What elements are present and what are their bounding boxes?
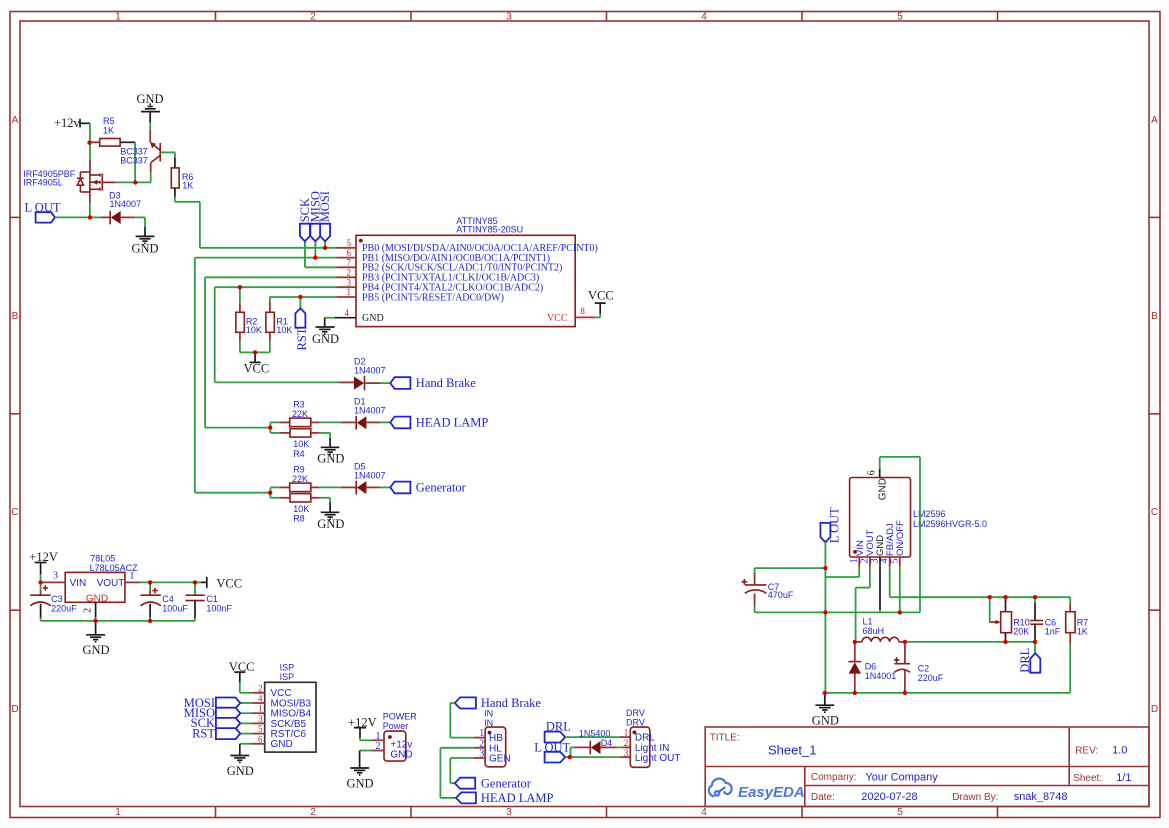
svg-text:1N4007: 1N4007 (110, 199, 142, 209)
svg-text:RST: RST (192, 726, 215, 740)
svg-text:GND: GND (347, 777, 374, 791)
svg-text:220uF: 220uF (918, 673, 944, 683)
svg-text:1K: 1K (1077, 627, 1088, 637)
svg-text:470uF: 470uF (768, 590, 794, 600)
svg-text:R3: R3 (293, 399, 305, 409)
svg-text:ON/OFF: ON/OFF (895, 520, 906, 556)
svg-text:LM2596: LM2596 (913, 509, 946, 519)
svg-text:10K: 10K (293, 504, 309, 514)
svg-text:5: 5 (258, 724, 263, 734)
svg-text:2: 2 (83, 608, 94, 613)
svg-text:1: 1 (258, 704, 263, 714)
svg-text:6: 6 (867, 470, 878, 475)
svg-text:1nF: 1nF (1045, 627, 1061, 637)
svg-text:A: A (12, 115, 19, 126)
svg-text:3: 3 (258, 714, 263, 724)
svg-text:B: B (12, 311, 19, 322)
svg-text:100nF: 100nF (206, 603, 232, 613)
svg-text:VCC: VCC (547, 313, 568, 324)
svg-text:EasyEDA: EasyEDA (738, 784, 805, 801)
svg-text:3: 3 (506, 12, 512, 23)
svg-text:DRV: DRV (626, 708, 645, 718)
svg-text:10K: 10K (276, 325, 292, 335)
svg-text:100uF: 100uF (162, 603, 188, 613)
svg-text:ISP: ISP (280, 672, 295, 682)
svg-text:1N4007: 1N4007 (354, 471, 386, 481)
svg-text:VIN: VIN (70, 578, 87, 589)
svg-text:A: A (1151, 115, 1158, 126)
svg-text:VOUT: VOUT (97, 578, 125, 589)
svg-text:GND: GND (83, 643, 110, 657)
svg-text:Drawn By:: Drawn By: (952, 792, 998, 803)
svg-text:C: C (1151, 507, 1158, 518)
svg-text:VCC: VCC (244, 362, 270, 376)
svg-text:snak_8748: snak_8748 (1014, 791, 1068, 803)
svg-text:D: D (11, 704, 18, 715)
svg-text:HEAD LAMP: HEAD LAMP (416, 416, 489, 430)
svg-text:220uF: 220uF (51, 603, 77, 613)
svg-text:1K: 1K (103, 126, 114, 136)
svg-text:3: 3 (53, 571, 58, 582)
svg-text:2: 2 (258, 683, 263, 693)
svg-text:C3: C3 (51, 594, 63, 604)
svg-text:1/1: 1/1 (1116, 772, 1131, 784)
svg-text:2: 2 (347, 268, 352, 278)
svg-text:B: B (1151, 311, 1158, 322)
svg-text:DRV: DRV (626, 717, 645, 727)
svg-text:GND: GND (86, 593, 108, 604)
svg-text:R8: R8 (293, 514, 305, 524)
svg-text:R9: R9 (293, 464, 305, 474)
svg-text:5: 5 (897, 12, 903, 23)
svg-text:C2: C2 (918, 664, 930, 674)
svg-text:VCC: VCC (216, 576, 242, 590)
svg-text:2: 2 (624, 738, 629, 748)
svg-text:20K: 20K (1013, 627, 1029, 637)
svg-text:1N4001: 1N4001 (865, 671, 897, 681)
svg-text:5: 5 (890, 558, 901, 563)
svg-text:GND: GND (271, 739, 293, 750)
svg-text:22K: 22K (292, 474, 308, 484)
svg-text:2: 2 (310, 12, 316, 23)
svg-text:D6: D6 (865, 661, 877, 671)
svg-text:78L05: 78L05 (90, 553, 115, 563)
svg-text:1K: 1K (182, 180, 193, 190)
svg-text:PB5 (PCINT5/RESET/ADC0/DW): PB5 (PCINT5/RESET/ADC0/DW) (362, 292, 504, 303)
svg-text:1N4007: 1N4007 (354, 406, 386, 416)
svg-text:4: 4 (701, 807, 707, 818)
svg-text:5: 5 (347, 238, 352, 248)
svg-text:GND: GND (362, 313, 384, 324)
svg-text:1: 1 (347, 287, 352, 297)
svg-text:GND: GND (317, 452, 344, 466)
svg-text:Power: Power (383, 721, 409, 731)
svg-text:1.0: 1.0 (1112, 745, 1127, 757)
svg-text:Sheet:: Sheet: (1073, 773, 1102, 784)
svg-text:Light OUT: Light OUT (635, 753, 681, 764)
svg-text:GEN: GEN (489, 754, 511, 765)
svg-text:1N5400: 1N5400 (579, 728, 611, 738)
svg-text:4: 4 (258, 694, 263, 704)
svg-text:POWER: POWER (383, 712, 418, 722)
svg-text:ATTINY85-20SU: ATTINY85-20SU (456, 225, 523, 235)
svg-text:C4: C4 (162, 594, 174, 604)
svg-text:GND: GND (227, 764, 254, 778)
svg-text:4: 4 (345, 308, 350, 318)
svg-text:Generator: Generator (416, 481, 467, 495)
svg-text:1: 1 (849, 558, 860, 563)
svg-text:IRF4905L: IRF4905L (23, 178, 63, 188)
svg-text:8: 8 (580, 306, 585, 316)
svg-text:ISP: ISP (280, 663, 295, 673)
svg-text:2020-07-28: 2020-07-28 (861, 791, 917, 803)
svg-text:5: 5 (897, 807, 903, 818)
svg-text:REV:: REV: (1075, 746, 1098, 757)
svg-text:6: 6 (258, 734, 263, 744)
svg-text:R4: R4 (293, 449, 305, 459)
svg-text:7: 7 (347, 258, 352, 268)
svg-text:+12v: +12v (54, 116, 81, 130)
svg-text:3: 3 (347, 277, 352, 287)
svg-text:1: 1 (115, 807, 121, 818)
svg-text:10K: 10K (246, 325, 262, 335)
svg-text:1: 1 (130, 571, 135, 582)
svg-text:MOSI: MOSI (318, 191, 332, 222)
svg-text:Sheet_1: Sheet_1 (768, 743, 816, 758)
svg-text:22K: 22K (292, 409, 308, 419)
svg-text:GND: GND (812, 714, 839, 728)
svg-text:1: 1 (115, 12, 121, 23)
svg-text:GND: GND (317, 517, 344, 531)
svg-text:D: D (1151, 704, 1158, 715)
svg-text:BC337: BC337 (120, 155, 148, 165)
svg-text:3: 3 (506, 807, 512, 818)
svg-text:Generator: Generator (481, 776, 532, 790)
svg-text:2: 2 (310, 807, 316, 818)
svg-text:IN: IN (484, 709, 493, 719)
svg-text:Company:: Company: (811, 772, 857, 783)
svg-text:1N4007: 1N4007 (354, 366, 386, 376)
svg-text:GND: GND (312, 332, 339, 346)
svg-text:L1: L1 (863, 617, 873, 627)
svg-text:3: 3 (624, 748, 629, 758)
svg-text:Date:: Date: (811, 792, 835, 803)
svg-text:GND: GND (390, 750, 412, 761)
svg-text:Your Company: Your Company (865, 772, 938, 784)
svg-text:TITLE:: TITLE: (710, 733, 740, 744)
svg-text:4: 4 (701, 12, 707, 23)
svg-text:GND: GND (132, 242, 159, 256)
svg-text:C: C (11, 507, 18, 518)
svg-text:HEAD LAMP: HEAD LAMP (481, 791, 554, 805)
svg-text:GND: GND (877, 478, 888, 500)
svg-text:VCC: VCC (588, 289, 614, 303)
svg-text:RST: RST (295, 327, 309, 350)
svg-text:LM2596HVGR-5.0: LM2596HVGR-5.0 (913, 519, 987, 529)
svg-text:1: 1 (624, 728, 629, 738)
svg-text:C1: C1 (206, 594, 218, 604)
svg-text:Hand Brake: Hand Brake (416, 376, 476, 390)
svg-text:10K: 10K (293, 439, 309, 449)
svg-text:DRL: DRL (1018, 648, 1032, 673)
svg-text:6: 6 (347, 248, 352, 258)
svg-text:68uH: 68uH (863, 626, 885, 636)
